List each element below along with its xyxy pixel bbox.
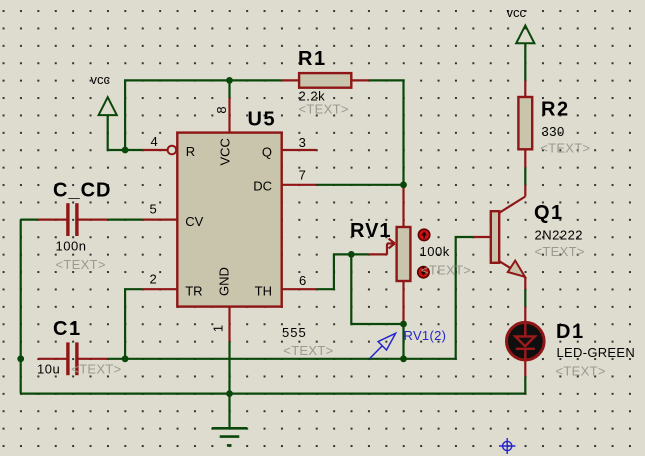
svg-text:<TEXT>: <TEXT> [283, 343, 333, 358]
svg-text:R2: R2 [541, 99, 570, 121]
svg-text:1: 1 [211, 325, 226, 332]
svg-text:R: R [186, 144, 195, 159]
svg-text:RV1(2): RV1(2) [404, 328, 447, 343]
svg-text:R1: R1 [298, 48, 327, 70]
svg-text:4: 4 [151, 134, 158, 149]
svg-text:<TEXT>: <TEXT> [535, 244, 585, 259]
svg-text:DC: DC [253, 179, 272, 194]
svg-text:2: 2 [150, 272, 157, 287]
svg-text:10u: 10u [37, 362, 60, 377]
svg-text:7: 7 [299, 168, 306, 183]
svg-text:5: 5 [150, 202, 157, 217]
svg-text:U5: U5 [248, 108, 277, 130]
svg-text:TH: TH [255, 284, 272, 299]
svg-text:<TEXT>: <TEXT> [540, 141, 590, 156]
svg-text:100n: 100n [56, 239, 87, 254]
svg-text:2N2222: 2N2222 [535, 228, 584, 243]
svg-text:Q: Q [262, 145, 272, 160]
svg-text:6: 6 [299, 273, 306, 288]
svg-text:GND: GND [217, 267, 232, 296]
svg-text:Q1: Q1 [534, 202, 564, 224]
svg-text:330: 330 [542, 124, 565, 139]
svg-text:C1: C1 [53, 318, 82, 340]
svg-text:VCC: VCC [218, 138, 233, 165]
svg-text:<TEXT>: <TEXT> [299, 102, 349, 117]
svg-text:D1: D1 [556, 321, 585, 343]
svg-text:8: 8 [214, 106, 229, 113]
svg-text:vcc: vcc [507, 5, 527, 20]
svg-text:LED-GREEN: LED-GREEN [557, 345, 636, 360]
svg-text:<TEXT>: <TEXT> [56, 257, 106, 272]
svg-text:<TEXT>: <TEXT> [71, 362, 121, 377]
svg-text:CV: CV [185, 214, 203, 229]
svg-text:555: 555 [282, 325, 307, 340]
svg-text:TR: TR [185, 284, 202, 299]
svg-text:C_CD: C_CD [53, 179, 111, 201]
svg-text:<TEXT>: <TEXT> [556, 364, 606, 379]
svg-text:100k: 100k [420, 244, 450, 259]
svg-text:<TEXT>: <TEXT> [421, 263, 471, 278]
svg-text:vcc: vcc [91, 72, 111, 87]
svg-text:RV1: RV1 [350, 220, 392, 242]
svg-text:3: 3 [299, 135, 306, 150]
